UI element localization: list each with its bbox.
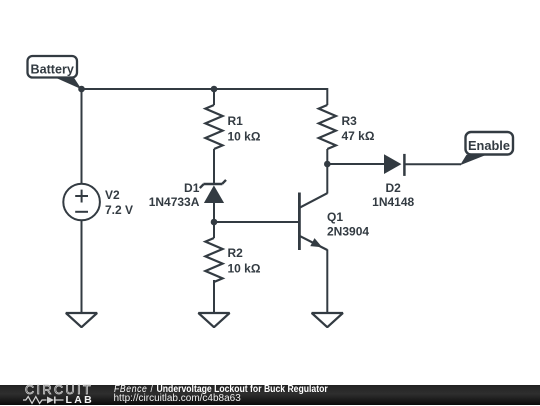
wire: V2 bottom to ground bbox=[81, 220, 83, 313]
svg-text:Battery: Battery bbox=[30, 62, 73, 76]
svg-text:Q1: Q1 bbox=[327, 210, 343, 224]
label D2 1N4148 bbox=[372, 181, 414, 209]
junction dot: Battery node bbox=[78, 86, 85, 93]
label D1 1N4733A bbox=[149, 181, 200, 209]
wire: base node to Q1 base bbox=[214, 221, 298, 223]
CircuitLab logo wordmark bbox=[25, 385, 93, 396]
footer url line bbox=[114, 394, 241, 404]
svg-text:1N4148: 1N4148 bbox=[372, 195, 414, 209]
junction dot: base node bbox=[211, 219, 218, 226]
svg-text:R1: R1 bbox=[228, 114, 244, 128]
wire: Q1 emitter down to ground bbox=[326, 250, 328, 314]
svg-text:10 kΩ: 10 kΩ bbox=[228, 261, 261, 275]
transistor Q1 bbox=[299, 193, 327, 251]
wire: R1 bottom to D1 cathode bbox=[213, 149, 215, 184]
node flag Enable bbox=[460, 132, 513, 165]
wire: R2 bottom to ground bbox=[213, 280, 215, 313]
svg-text:R2: R2 bbox=[228, 246, 244, 260]
wire: D2 cathode to Enable flag bbox=[404, 163, 461, 165]
junction dot: R1 top on rail bbox=[211, 86, 218, 93]
label V2 7.2 V bbox=[105, 188, 133, 217]
wire: top rail from Battery node to R3 corner bbox=[82, 89, 328, 105]
svg-text:R3: R3 bbox=[342, 114, 358, 128]
wire: Battery node down to V2 top bbox=[81, 89, 83, 184]
CircuitLab logo resistor-diode glyph bbox=[23, 386, 93, 406]
zener diode D1 bbox=[200, 180, 226, 203]
ground symbol under Q1 emitter bbox=[312, 313, 343, 327]
label R2 10 kOhm bbox=[228, 246, 261, 275]
svg-text:2N3904: 2N3904 bbox=[327, 224, 369, 238]
svg-text:D2: D2 bbox=[386, 181, 402, 195]
resistor R1 bbox=[205, 105, 222, 149]
svg-text:10 kΩ: 10 kΩ bbox=[228, 129, 261, 143]
resistor R3 bbox=[319, 105, 336, 149]
wire: collector node down to Q1 collector bbox=[326, 164, 328, 194]
svg-text:1N4733A: 1N4733A bbox=[149, 195, 200, 209]
svg-text:47 kΩ: 47 kΩ bbox=[342, 129, 375, 143]
label R3 47 kOhm bbox=[342, 114, 375, 143]
label R1 10 kOhm bbox=[228, 114, 261, 143]
wire: R3 bottom to collector node bbox=[326, 149, 328, 164]
diode D2 bbox=[384, 154, 404, 176]
ground symbol under R2 bbox=[198, 313, 229, 327]
wire: D1 anode to base node bbox=[213, 203, 215, 222]
svg-text:D1: D1 bbox=[184, 181, 200, 195]
svg-text:Enable: Enable bbox=[468, 138, 510, 153]
node flag Battery bbox=[28, 56, 82, 89]
wire: rail to R1 top bbox=[213, 89, 215, 105]
ground symbol under V2 bbox=[66, 313, 97, 327]
wire: collector node to D2 anode bbox=[327, 163, 384, 165]
footer bar bbox=[0, 385, 540, 406]
svg-text:7.2 V: 7.2 V bbox=[105, 203, 133, 217]
footer title line bbox=[114, 385, 328, 395]
wire: base node down to R2 top bbox=[213, 222, 215, 238]
resistor R2 bbox=[205, 238, 222, 282]
label Q1 2N3904 bbox=[327, 210, 369, 239]
voltage source V2 bbox=[63, 184, 100, 221]
junction dot: collector node bbox=[324, 161, 331, 168]
svg-text:V2: V2 bbox=[105, 188, 120, 202]
